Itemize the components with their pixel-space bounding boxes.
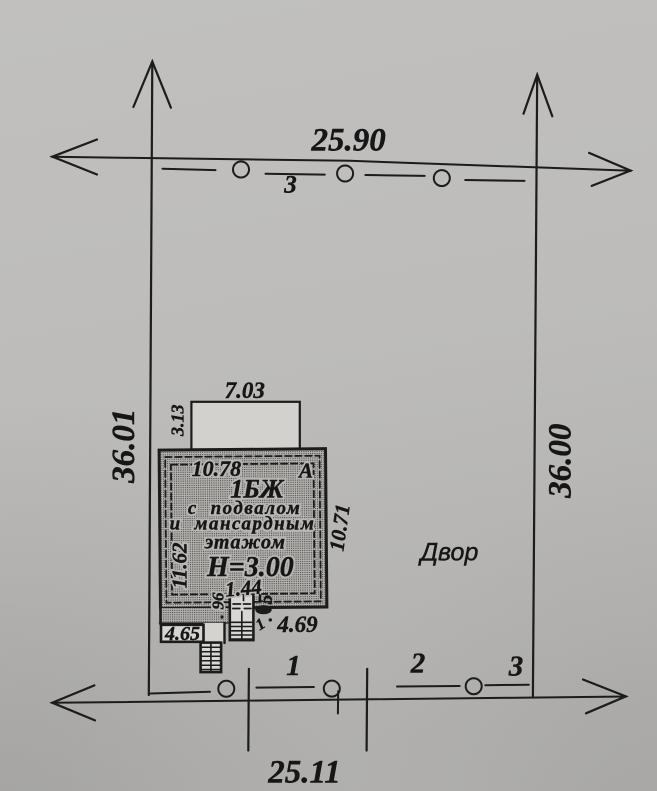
white region right wall <box>223 623 225 643</box>
bottom fence segment 3 <box>485 684 529 687</box>
stair 2 (lower-left steps) <box>201 643 222 673</box>
svg-text:36.01: 36.01 <box>106 409 142 484</box>
top fence post circle 1 <box>233 162 249 178</box>
svg-text:2: 2 <box>410 648 426 680</box>
bottom fence segment 1 <box>256 686 314 689</box>
bottom fence post circle 1 <box>218 681 234 697</box>
boundary line left (vertical, north arrow) <box>149 62 153 696</box>
bottom dimension right arrowhead <box>583 680 626 714</box>
svg-text:этажом: этажом <box>204 532 286 554</box>
tick below 1.44 <box>243 595 245 601</box>
svg-text:96: 96 <box>209 592 228 610</box>
svg-text:3: 3 <box>283 172 297 199</box>
svg-text:А: А <box>297 459 313 483</box>
porch 4.65 box <box>161 625 204 642</box>
bottom fence post circle 2 <box>324 681 340 697</box>
top dimension right arrowhead <box>589 153 631 186</box>
svg-text:7.03: 7.03 <box>225 378 265 403</box>
svg-text:Двор: Двор <box>417 539 478 567</box>
extension left wall <box>159 608 162 624</box>
bottom tall tick 2 <box>366 669 369 751</box>
top fence post circle 3 <box>434 170 450 186</box>
svg-text:25.90: 25.90 <box>310 123 385 159</box>
building outer wall <box>159 449 327 609</box>
bottom fence segment 2 <box>397 685 460 688</box>
arrowhead of right boundary <box>524 75 553 116</box>
top fence segment 4 <box>465 179 524 182</box>
boundary line right (vertical, north arrow) <box>533 75 537 697</box>
leader dot before 4.69 <box>269 618 272 621</box>
bottom tall tick 1 <box>247 669 250 751</box>
top fence segment 1 <box>163 169 216 170</box>
top fence post circle 2 <box>337 166 353 182</box>
top dimension line 25.90 <box>52 157 631 171</box>
svg-text:11.62: 11.62 <box>168 542 192 589</box>
svg-text:3: 3 <box>508 651 524 683</box>
top fence segment 2 <box>266 173 325 176</box>
lower extension strip <box>159 608 231 623</box>
bottom fence post circle 3 <box>466 678 482 694</box>
svg-text:1: 1 <box>286 650 301 682</box>
svg-text:3.13: 3.13 <box>168 405 188 438</box>
bottom dimension left arrowhead <box>52 685 95 720</box>
bottom dimension line 25.11 <box>52 697 627 703</box>
svg-text:36.00: 36.00 <box>542 424 578 499</box>
white yard region beside 4.65 box <box>204 623 225 643</box>
building inner dashed wall line 1 <box>165 456 321 603</box>
stair 1 (center entrance steps) <box>230 594 254 641</box>
top fence segment 3 <box>365 174 424 177</box>
top dimension left arrowhead <box>52 140 97 175</box>
building inner dashed wall line 2 <box>171 463 315 594</box>
extension bottom edge <box>159 622 231 624</box>
arrowhead of left boundary <box>133 62 171 108</box>
bottom short tick under circle 2 <box>337 691 339 713</box>
ink blob at building bottom edge <box>255 605 271 614</box>
main building 1БЖ <box>159 449 327 609</box>
bottom fence segment 0 <box>151 692 211 694</box>
svg-text:4.69: 4.69 <box>276 612 318 637</box>
porch rectangle (top extension) <box>191 402 299 450</box>
svg-text:4.65: 4.65 <box>164 623 200 645</box>
svg-text:25.11: 25.11 <box>267 755 340 791</box>
dot below 96 <box>220 615 223 618</box>
svg-text:5: 5 <box>254 593 277 605</box>
